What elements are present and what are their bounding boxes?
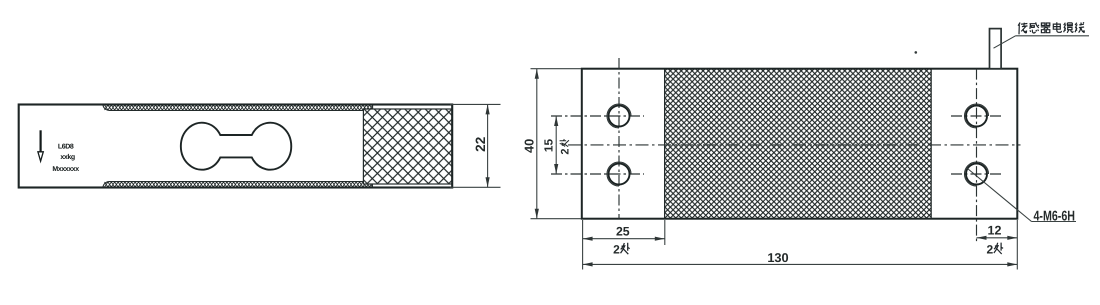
centerline hole row top-right — [951, 115, 1002, 117]
svg-text:25: 25 — [616, 225, 630, 239]
leader 4-M6-6H — [968, 169, 1032, 222]
svg-text:2: 2 — [613, 243, 620, 257]
svg-text:12: 12 — [988, 223, 1002, 237]
dim 130 extension lines — [582, 220, 584, 270]
dim 12 dimension line — [977, 237, 1018, 239]
dim text 2chu right — [987, 242, 1004, 256]
dim 25 extension line right — [664, 220, 666, 245]
char gan — [1030, 22, 1039, 33]
centerline vertical left hole column — [618, 58, 620, 219]
body outline rectangle — [582, 69, 1018, 219]
dim text 2chu rotated — [560, 139, 572, 155]
label sensor cable (hand-drawn CJK) — [1018, 22, 1084, 34]
crosshatched center section — [665, 69, 932, 219]
dim 25 dimension line — [583, 238, 665, 240]
dim 40 dimension line — [536, 69, 538, 219]
stray dot artifact — [915, 51, 918, 54]
centerline hole row top-left — [551, 115, 644, 117]
centerline hole row bottom-left — [551, 173, 644, 175]
dumbbell cutout — [181, 123, 291, 170]
hole top-right M6 — [965, 104, 989, 128]
dim text 2chu — [613, 243, 630, 257]
svg-text:2: 2 — [987, 242, 994, 256]
char xian — [1075, 22, 1085, 32]
load direction arrow — [38, 130, 43, 161]
hole bottom-left M6 — [607, 162, 631, 186]
hole bottom-right M6 — [965, 162, 989, 186]
svg-text:4-M6-6H: 4-M6-6H — [1034, 208, 1076, 224]
centerline vertical right hole column — [976, 69, 978, 244]
svg-text:130: 130 — [767, 250, 788, 265]
dim 22 extension lines — [450, 103, 501, 105]
dim 15 dimension line — [555, 116, 557, 174]
char chuan — [1018, 23, 1027, 35]
char dian — [1053, 22, 1061, 32]
beam outline rectangle — [19, 105, 453, 188]
dim 40 extension lines — [531, 68, 582, 70]
leader cable label — [994, 36, 1016, 48]
svg-text:15: 15 — [542, 139, 556, 153]
svg-text:2: 2 — [560, 149, 572, 155]
bottom hatch strip — [103, 182, 372, 188]
top hatch strip — [103, 105, 373, 111]
svg-text:40: 40 — [521, 139, 536, 153]
centerline hole row bottom-right — [951, 173, 1002, 175]
char lan — [1064, 23, 1073, 33]
svg-text:L6D8: L6D8 — [58, 144, 74, 151]
char qi — [1041, 23, 1050, 33]
svg-text:Mxxxxxx: Mxxxxxx — [52, 166, 79, 173]
dim 22 dimension line — [487, 104, 489, 187]
svg-text:22: 22 — [473, 137, 488, 152]
svg-text:xxkg: xxkg — [60, 153, 74, 161]
hole top-left M6 — [607, 104, 631, 128]
centerline horizontal middle — [568, 144, 1021, 146]
dim 130 dimension line — [583, 263, 1018, 265]
cable gland — [990, 29, 1002, 69]
clamp block (crosshatched) — [363, 109, 452, 184]
